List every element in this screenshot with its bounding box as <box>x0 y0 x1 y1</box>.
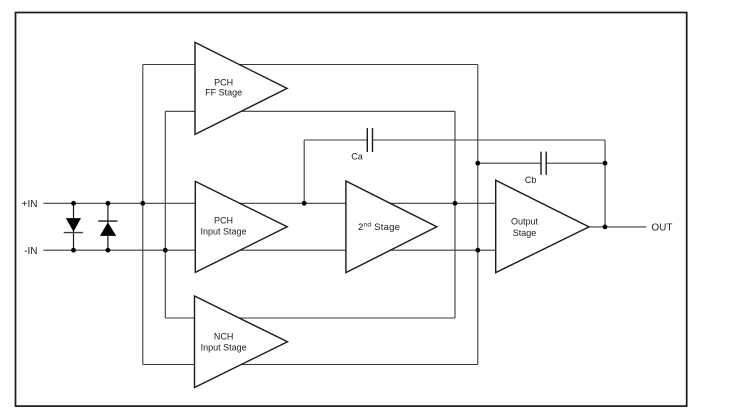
svg-text:Cb: Cb <box>525 175 537 185</box>
junction Cb left / right bus B <box>475 161 480 166</box>
wire: left vertical bus (+IN branch) <box>142 65 144 365</box>
svg-text:+IN: +IN <box>22 199 38 210</box>
svg-text:Input Stage: Input Stage <box>201 342 247 352</box>
wire: right vertical bus A <box>454 111 456 318</box>
capacitor Cb <box>541 152 546 175</box>
diode D1 (cathode down) <box>64 218 83 233</box>
svg-text:PCH: PCH <box>214 77 233 87</box>
svg-text:Output: Output <box>511 217 539 227</box>
svg-text:OUT: OUT <box>651 223 672 234</box>
svg-text:PCH: PCH <box>214 216 233 226</box>
amplifier PCH FF Stage <box>195 42 287 134</box>
wire: Cb right lead <box>546 162 605 164</box>
junction +IN / left bus <box>140 201 145 206</box>
svg-text:Stage: Stage <box>513 228 537 238</box>
wire: output feedback vertical <box>604 140 606 227</box>
amplifier 2nd Stage <box>346 181 437 273</box>
junction +IN / D1 <box>71 201 76 206</box>
svg-text:Ca: Ca <box>351 152 363 162</box>
junction +IN / D2 <box>106 201 111 206</box>
wire: Ca riser from +IN rail <box>303 140 305 203</box>
junction -IN / D2 <box>106 248 111 253</box>
wire: Ca right lead <box>373 139 606 141</box>
wire: NCH stage bottom feed horizontal <box>143 364 478 366</box>
junction +IN / right bus A <box>453 201 458 206</box>
capacitor Ca <box>367 128 372 152</box>
junction Cb right / feedback vertical <box>603 161 608 166</box>
amplifier NCH Input Stage <box>195 296 288 388</box>
junction -IN / right bus B <box>475 248 480 253</box>
wire: -IN input rail <box>43 249 495 251</box>
wire: right vertical bus B <box>477 65 479 365</box>
wire: diode D2 stem <box>107 203 109 250</box>
wire: Ca left lead <box>304 139 367 141</box>
wire: FF stage top feed horizontal <box>143 64 478 66</box>
wire: +IN input rail <box>43 202 495 204</box>
svg-text:-IN: -IN <box>24 246 37 257</box>
wire: OUT lead <box>589 226 646 228</box>
wire: left vertical bus (-IN branch) <box>164 111 166 318</box>
wire: Cb left lead <box>478 162 541 164</box>
wire: NCH stage top feed horizontal <box>165 317 455 319</box>
amplifier PCH Input Stage <box>195 181 287 272</box>
svg-text:FF Stage: FF Stage <box>205 88 242 98</box>
svg-text:Input Stage: Input Stage <box>200 227 246 237</box>
junction OUT node <box>603 225 608 230</box>
junction +IN / Ca riser <box>302 201 307 206</box>
wire: diode D1 stem <box>73 203 75 250</box>
junction -IN / left bus <box>163 248 168 253</box>
svg-text:NCH: NCH <box>214 332 234 342</box>
diode D2 (cathode up) <box>98 221 117 236</box>
wire: FF stage bottom feed horizontal <box>165 110 455 112</box>
junction -IN / D1 <box>71 248 76 253</box>
amplifier Output Stage <box>496 180 589 272</box>
